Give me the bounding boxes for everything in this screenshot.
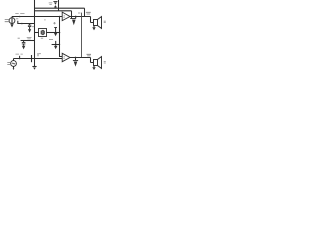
stub from output dot to ground bar [75,17,77,19]
capacitor to ground on y23 net [29,24,31,26]
wire: AC source up and right to op-amp U2 [14,59,63,61]
AC source bottom arrow [13,68,15,70]
label right of capacitor [32,26,34,28]
diode pair top bar [53,1,57,3]
label right of SP2 [104,62,106,63]
wire: current source to op-amp U1 input [12,16,62,18]
plus mark near U1 lower left [53,22,55,24]
wire: crystal to V2 [47,32,60,34]
faint mark on input wire area [44,19,46,21]
junction dot input/left rail [34,16,35,17]
wire: U2 output to speaker SP2 [70,57,91,59]
U1 inner mark [64,16,66,18]
wire drop into speaker SP1 [91,17,94,23]
ground arrow x23.6 [22,46,25,50]
ground bar at left rail bottom [32,66,36,68]
wire: left rail to crystal [35,32,39,34]
label under crystal [41,37,43,39]
label near y23 stub [16,18,18,20]
stub to ground bar bottom-right [75,58,77,61]
pin tick right of left rail [37,53,39,56]
label cap value above SP1 [86,12,91,14]
crystal plates [41,31,44,34]
ground arrow under SP2 [92,67,95,70]
stub symbol to rail [54,6,56,9]
W2 corner drop [71,11,73,19]
junction dot on input wire [19,16,21,18]
U2 inner mark [64,57,66,59]
current source arrowhead [10,24,13,27]
label above output wire [78,12,80,14]
label left of symbol [49,3,53,5]
junction dot y44/V2 [59,44,60,45]
ground arrow under SP1 [92,27,95,30]
junction dot y23 wire [21,23,23,25]
label left of AC source [7,62,11,64]
top feed vertical x58.5 [58,0,60,11]
speaker SP2 cone [98,57,102,69]
ground arrow bottom-right [74,62,78,67]
feedback vertical V2 [60,17,63,57]
ground arrow top-right [72,20,76,26]
label right of crystal [49,39,53,41]
op-amp U1 triangle [62,12,70,21]
wire: long left vertical rail [34,0,36,66]
label above input wire [15,13,24,15]
label near pin tick [39,53,41,55]
current source arrow shaft [11,17,13,25]
wire: pin stub y23 [18,21,35,24]
ground bar bottom-right [73,60,78,62]
ground arrow tip left rail [33,68,36,70]
ground arrow crossing y44 net [55,41,57,46]
label above SP2 wire [87,54,92,56]
speaker SP1 box [94,20,98,26]
crystal center slab [42,30,44,34]
wire: U1 output to speaker [70,16,91,18]
label left of current source [5,20,10,22]
label right of SP1 [104,21,106,22]
junction dot on U1 output [75,16,77,18]
label 0.1 above y40 wire [18,38,32,39]
capacitor to ground at x23.6 [23,41,25,43]
crystal X1 outer box [39,29,47,37]
wire: pin y40 [21,40,35,42]
current source I1 circle [9,18,15,24]
op-amp U2 triangle [62,53,70,61]
AC source bottom stub [13,66,15,68]
rail drop to output net [84,8,86,16]
junction dot on U2 output [75,57,77,59]
diode pair up triangle [54,5,57,7]
ground stub under SP1 [93,26,95,28]
speaker SP2 box [94,60,98,66]
junction dot V2 top [59,16,61,18]
AC source V1 circle [11,61,17,67]
ground arrow crossing crystal net [54,27,57,29]
diode pair down triangle [54,2,57,4]
label above x19.6 stub [16,53,23,55]
top wire W2 y11.5 [35,10,72,12]
AC source sine [12,63,15,64]
junction dot crystal/V2 [59,32,61,34]
ground stub under SP2 [93,66,95,68]
series capacitor plate on input wire [31,55,33,62]
wire y44 to V2 [52,44,60,46]
vertical V3 connecting outputs [81,13,83,58]
junction dot + stub x19.6 [19,58,21,60]
junction dot at left rail crossing [34,58,35,59]
speaker SP1 cone [98,17,102,29]
ground arrow y23 net [28,29,31,33]
ground bar top-right [70,18,76,20]
top rail y8 [35,7,85,9]
wire drop into speaker SP2 [91,58,94,63]
